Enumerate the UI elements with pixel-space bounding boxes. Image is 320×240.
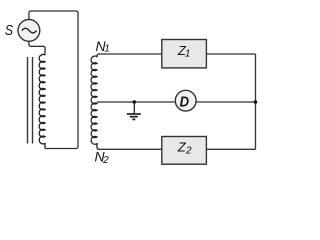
wire source bottom to primary top [29,41,45,55]
junction node at right rail [254,100,258,104]
ground [127,102,141,119]
junction node at ground tap [133,100,137,104]
wire center tap to detector [97,101,175,103]
wire source top to primary bottom (top rail, right vertical, bottom rail) [29,11,78,149]
primary coil [39,54,45,148]
wire N1 to Z1 [99,53,162,55]
svg-text:N2: N2 [95,148,110,166]
detector D [175,90,196,111]
wire N2 to Z2 [99,148,162,150]
transformer core [28,57,33,144]
impedance Z2 [162,137,207,165]
svg-text:S: S [5,22,13,38]
secondary coil [91,54,99,149]
svg-text:D: D [180,94,189,110]
impedance Z1 [162,40,207,68]
right rail wire [255,54,257,149]
wire detector to right rail [196,101,256,103]
source S [18,20,40,42]
wire Z2 to right rail [206,148,255,150]
wire Z1 to right rail [206,53,255,55]
svg-text:N1: N1 [96,38,110,55]
